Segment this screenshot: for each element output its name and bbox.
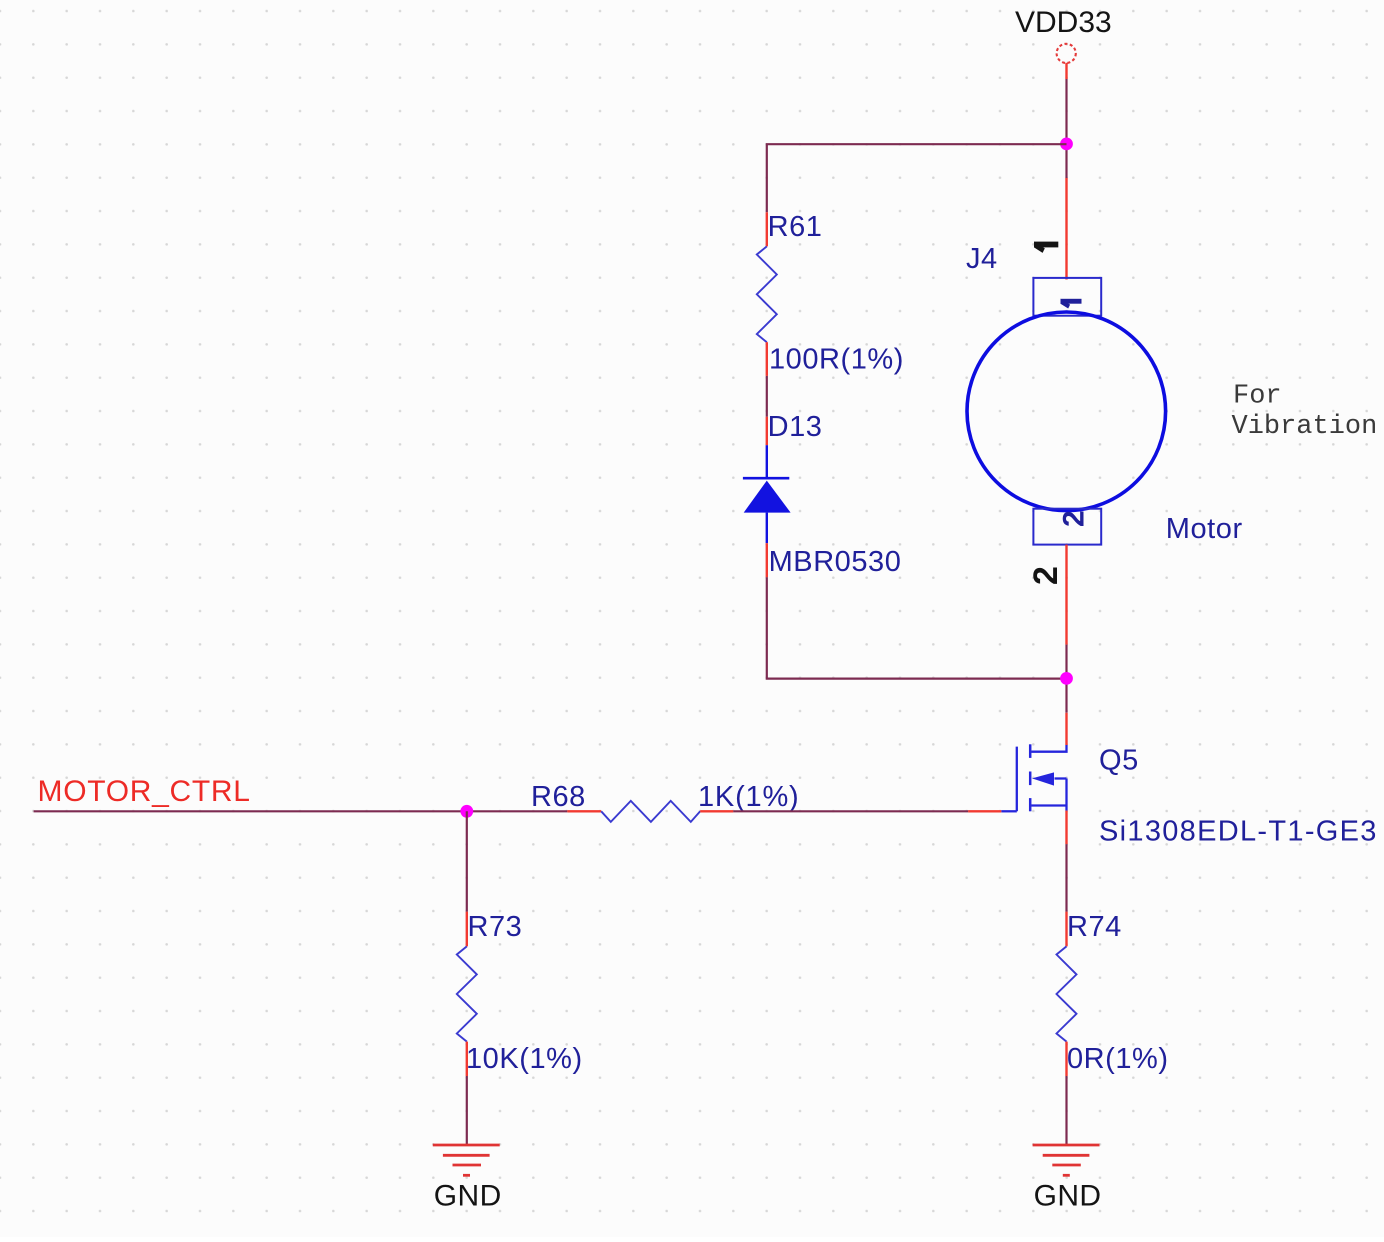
- wire D13 to motor bottom node: [767, 577, 1067, 678]
- svg-text:1K(1%): 1K(1%): [698, 781, 800, 813]
- cathode pin of D13: [766, 417, 768, 445]
- resistor R74: [1057, 911, 1169, 1076]
- svg-text:Motor: Motor: [1166, 513, 1243, 545]
- svg-text:D13: D13: [768, 411, 823, 443]
- pin 1 of R68: [567, 810, 601, 812]
- gate bar: [1016, 747, 1018, 812]
- anode pin of D13: [766, 543, 768, 577]
- svg-text:MOTOR_CTRL: MOTOR_CTRL: [38, 775, 251, 808]
- power symbol VDD33: [1015, 6, 1112, 79]
- svg-text:2: 2: [1058, 510, 1091, 527]
- source contact bar: [1029, 798, 1032, 811]
- pin lead J4 pin 1: [1065, 178, 1067, 280]
- wire R68 to Q5 gate: [733, 810, 968, 812]
- svg-text:Vibration: Vibration: [1232, 412, 1378, 442]
- wire MOTOR_CTRL to R68: [34, 810, 568, 812]
- connector J4 bottom box: [1033, 509, 1101, 545]
- svg-text:10K(1%): 10K(1%): [466, 1043, 583, 1075]
- svg-text:2: 2: [1027, 566, 1065, 585]
- resistor R73: [457, 911, 583, 1076]
- node junction at R73 branch: [460, 805, 473, 818]
- power port circle: [1057, 44, 1076, 63]
- anode lead: [766, 513, 768, 544]
- drain lead: [1031, 745, 1066, 752]
- svg-text:R61: R61: [768, 211, 823, 243]
- ground symbol left: [433, 1145, 502, 1213]
- zigzag body of R61: [757, 246, 777, 342]
- source pin of Q5: [1065, 811, 1067, 845]
- diode triangle: [744, 481, 791, 513]
- transistor Q5: [968, 713, 1378, 848]
- svg-text:0R(1%): 0R(1%): [1067, 1043, 1169, 1075]
- drain pin of Q5: [1065, 713, 1067, 745]
- wire VDD33 to J4 pin 1: [1065, 79, 1067, 178]
- svg-text:MBR0530: MBR0530: [769, 546, 902, 578]
- body to source vertical lead: [1065, 779, 1067, 811]
- pin number 1 of J4 (black, rotated): [1034, 242, 1058, 253]
- wire junction down to R73: [466, 811, 468, 911]
- pin 2 of R68: [700, 810, 733, 812]
- svg-text:Si1308EDL-T1-GE3: Si1308EDL-T1-GE3: [1099, 816, 1378, 848]
- pin 2 of R73: [466, 1042, 468, 1076]
- wire R61 to D13: [766, 376, 768, 417]
- wire Q5 source down to R74: [1065, 844, 1067, 912]
- drain contact bar: [1029, 744, 1032, 758]
- body lead: [1055, 777, 1067, 779]
- wire J4 pin 2 to Q5 drain: [1065, 645, 1067, 713]
- svg-text:VDD33: VDD33: [1015, 6, 1112, 39]
- svg-text:R68: R68: [531, 781, 586, 813]
- svg-text:100R(1%): 100R(1%): [769, 344, 904, 376]
- zigzag body of R74: [1057, 946, 1077, 1041]
- source lead: [1031, 804, 1066, 806]
- power port pin: [1065, 63, 1067, 79]
- wire R74 to GND: [1065, 1076, 1067, 1145]
- pin 2 of R61: [766, 342, 768, 376]
- wire VDD33 branch to R61 top: [767, 144, 1067, 212]
- node junction at motor bottom: [1060, 672, 1073, 685]
- ground symbol right: [1033, 1145, 1102, 1213]
- pin 1 of R74: [1065, 912, 1067, 947]
- svg-text:R73: R73: [468, 911, 523, 943]
- pin 1 of R61: [766, 212, 768, 246]
- node junction at VDD33 branch: [1060, 138, 1073, 151]
- resistor R61: [757, 211, 904, 376]
- terminal number 1 inside box (rotated): [1061, 299, 1082, 309]
- body contact bar: [1029, 772, 1032, 786]
- cathode lead: [766, 445, 768, 478]
- diode D13: [743, 411, 902, 578]
- pin 2 of R74: [1065, 1042, 1067, 1076]
- zigzag body of R73: [457, 946, 477, 1041]
- pin lead J4 pin 2: [1065, 545, 1067, 645]
- svg-text:GND: GND: [434, 1180, 502, 1213]
- annotation For Vibration: [1232, 382, 1378, 442]
- pin 1 of R73: [466, 912, 468, 947]
- wire R73 to GND: [466, 1076, 468, 1145]
- svg-text:J4: J4: [966, 243, 998, 275]
- svg-text:Q5: Q5: [1099, 745, 1139, 777]
- svg-text:For: For: [1233, 382, 1282, 412]
- svg-text:GND: GND: [1034, 1180, 1102, 1213]
- zigzag body of R68: [601, 801, 700, 822]
- body arrow: [1032, 772, 1054, 785]
- svg-text:R74: R74: [1067, 911, 1122, 943]
- resistor R68: [531, 781, 800, 822]
- motor circle of J4: [967, 312, 1166, 511]
- gate pin of Q5: [968, 810, 1001, 812]
- gate lead: [1001, 810, 1017, 812]
- connector J4 top box: [1033, 278, 1101, 316]
- cathode bar: [743, 477, 789, 480]
